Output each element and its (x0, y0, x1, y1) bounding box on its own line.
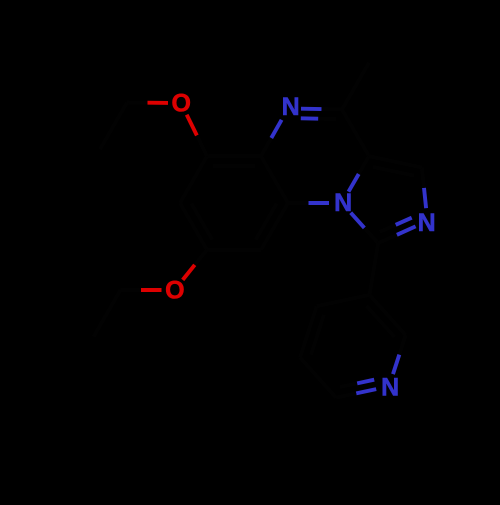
svg-text:O: O (165, 277, 184, 305)
svg-text:O: O (171, 90, 190, 118)
svg-text:N: N (334, 189, 352, 217)
bond C6-C7 (180, 203, 207, 250)
bond Ca-N4 (359, 156, 369, 174)
bond P1-P2 (370, 295, 406, 335)
bond O1-C8 (187, 115, 197, 136)
bond C4a-C5 (261, 203, 288, 250)
bond O1-E1 (148, 101, 169, 105)
bond Cb-Ca (369, 156, 422, 167)
bond C5-C6 (207, 248, 261, 252)
bond C2-Ca (342, 110, 369, 157)
bond O2-C6 (183, 265, 195, 280)
bond P4-P5 (300, 358, 336, 398)
bond N1-C2 (301, 107, 322, 111)
svg-text:N: N (381, 374, 399, 402)
bond C7-C8 (180, 156, 207, 203)
bond N6-P4 (356, 389, 376, 393)
bond N4-C4a (309, 201, 330, 205)
svg-text:N: N (418, 209, 436, 237)
bond E1-E2 (100, 103, 127, 150)
bond C2i-P1 (370, 243, 379, 295)
bond O2-E3 (141, 288, 162, 292)
bond P6-P1 (317, 295, 370, 306)
bond C2-M1 (342, 63, 369, 110)
bond P2-N6 (399, 335, 405, 355)
bond P5-P6 (300, 306, 317, 357)
svg-text:N: N (282, 93, 300, 121)
bond C8-C8a (207, 154, 261, 158)
bond C2i-N5 (378, 235, 397, 243)
bond N5-Cb (424, 188, 426, 208)
bond N4-C2i (351, 213, 365, 228)
bond C8a-N1 (261, 138, 271, 156)
bond E3-E4 (94, 290, 121, 337)
bond C4a-C8a (261, 156, 288, 203)
